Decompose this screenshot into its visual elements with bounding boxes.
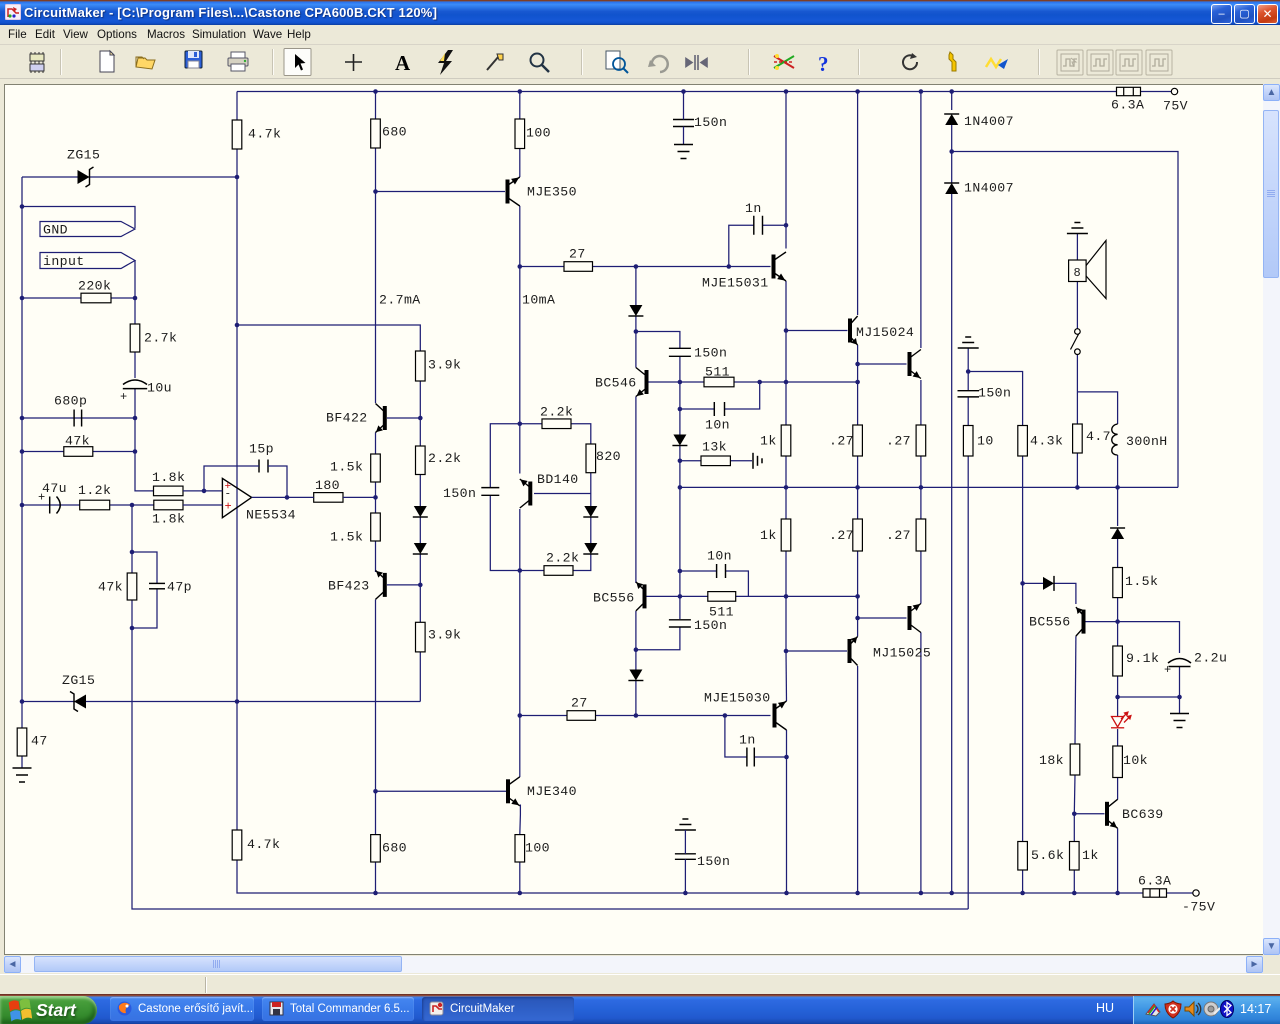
- node 47k right: [133, 449, 138, 454]
- wire BC546 collector node to 150n corner: [636, 332, 680, 349]
- svg-text:27: 27: [569, 247, 586, 262]
- wire diode to 27 lower node: [635, 681, 637, 716]
- svg-text:3.9k: 3.9k: [428, 628, 461, 643]
- svg-text:GND: GND: [43, 223, 68, 238]
- svg-text:1.5k: 1.5k: [1125, 574, 1158, 589]
- wire switch to 4.7 node: [1076, 355, 1078, 425]
- svg-text:1N4007: 1N4007: [964, 181, 1014, 196]
- resistor 2.2k mid: [416, 446, 426, 475]
- wire MJE15031 emitter down: [785, 281, 787, 331]
- wire 2.7k to 10u: [134, 352, 136, 378]
- svg-text:1.5k: 1.5k: [330, 530, 363, 545]
- resistor 27 top: [564, 262, 593, 272]
- capacitor 47p: [149, 583, 165, 588]
- wire BD140 collector down: [519, 509, 521, 571]
- wire 680b to bottom rail: [375, 862, 377, 893]
- wire 1k lower to 511 row: [785, 551, 787, 596]
- node rail857 bottom: [855, 891, 860, 896]
- svg-text:150n: 150n: [694, 346, 727, 361]
- node 27 left: [518, 264, 523, 269]
- node mje340 base: [373, 789, 378, 794]
- svg-text:MJ15025: MJ15025: [873, 646, 931, 661]
- wire rail-375 680 to base row: [375, 148, 377, 192]
- wire MJE340 emitter to 100: [519, 805, 522, 835]
- svg-text:47: 47: [31, 734, 48, 749]
- wire +75V top rail: [237, 91, 1117, 93]
- node rail921 top: [919, 89, 924, 94]
- wire zobel row: [968, 372, 1022, 426]
- node 47p bottom: [130, 626, 135, 631]
- diode bias 590 b: [583, 543, 598, 554]
- resistor 1.5k lower: [371, 513, 381, 541]
- wire MJ15024 emitter down: [857, 345, 859, 382]
- svg-text:1.2k: 1.2k: [78, 483, 111, 498]
- svg-text:1.5k: 1.5k: [330, 460, 363, 475]
- svg-text:150n: 150n: [978, 386, 1011, 401]
- wire 511 lower row left: [680, 595, 708, 597]
- wire rail-237 to bottom rail: [237, 860, 1143, 893]
- node 180 out: [373, 495, 378, 500]
- resistor 10k: [1113, 746, 1123, 778]
- svg-text:+: +: [1164, 663, 1171, 677]
- resistor 4.7k bottom: [232, 830, 242, 860]
- wire 1N4007 to bottom: [951, 194, 953, 893]
- wire MJ15024b base row: [858, 363, 907, 365]
- wire rail-520 top: [519, 92, 521, 120]
- wire rail-520 BD140: [519, 424, 521, 474]
- svg-text:MJ15024: MJ15024: [856, 325, 914, 340]
- wire 679 below output: [679, 487, 681, 596]
- svg-text:10mA: 10mA: [522, 293, 555, 308]
- node 4.3k diode: [1020, 581, 1025, 586]
- svg-text:15p: 15p: [249, 442, 274, 457]
- resistor 9.1k: [1113, 646, 1123, 676]
- resistor 13k: [701, 456, 730, 466]
- wire 420 to 3.9k lower: [419, 585, 421, 622]
- wire rail-520 to MJE340: [519, 716, 521, 778]
- svg-text:2.2k: 2.2k: [546, 551, 579, 566]
- wire rail-951 top: [951, 92, 953, 111]
- resistor 1.5k right: [1113, 568, 1123, 598]
- wire 679 to output rail: [679, 461, 681, 488]
- node 2.2k lower row: [518, 568, 523, 573]
- wire 2.2u to 697 row: [1179, 666, 1181, 713]
- wire 590 between diodes: [590, 518, 592, 544]
- svg-text:5.6k: 5.6k: [1031, 848, 1064, 863]
- resistor 1.2k: [80, 500, 110, 510]
- wire BC556L collector down: [635, 611, 637, 650]
- svg-text:150n: 150n: [697, 854, 730, 869]
- wire 13k to ground: [730, 460, 752, 462]
- wire MJ15024b emitter down: [920, 380, 922, 425]
- wire MJE15030 collector down: [786, 730, 788, 893]
- svg-text:680: 680: [382, 125, 407, 140]
- svg-text:150n: 150n: [694, 618, 727, 633]
- wire MJE350 emitter down: [519, 206, 521, 267]
- svg-text:2.7mA: 2.7mA: [379, 293, 421, 308]
- svg-text:2.2u: 2.2u: [1194, 651, 1227, 666]
- wire 180 to 375 node: [343, 496, 376, 498]
- wire MJE350 base row: [376, 191, 506, 193]
- wire MJ15025 collector down: [857, 666, 859, 893]
- zener ZG15 top: [78, 167, 94, 187]
- wire 15p feedback left: [204, 466, 259, 491]
- capacitor 150n rail top: [673, 120, 694, 127]
- transistor BF422: [376, 404, 385, 433]
- node bc546 collector: [634, 329, 639, 334]
- wire rail-520 to 2.2k row: [519, 267, 521, 424]
- node 1n 786 lower: [784, 755, 789, 760]
- node 857 511 lower: [855, 594, 860, 599]
- wire left rail 47 to ground: [21, 756, 23, 768]
- svg-text:2.2k: 2.2k: [428, 451, 461, 466]
- wire 10n lower row: [680, 570, 717, 572]
- wire 4.3k to 5.6k: [1022, 583, 1024, 841]
- diode 679 limiter: [672, 435, 687, 446]
- wire rail-375 top: [375, 92, 377, 120]
- wire 1n lower right: [754, 756, 786, 758]
- inductor 300nH: [1112, 424, 1118, 455]
- wire 47k row: [22, 451, 135, 453]
- wire op-amp out: [252, 496, 314, 498]
- wire 511 to emitter rail: [734, 381, 858, 383]
- node bc556r base: [1115, 619, 1120, 624]
- wire BC639 base row: [1074, 813, 1104, 815]
- svg-text:47u: 47u: [42, 481, 67, 496]
- resistor .27 bottom b: [916, 519, 926, 551]
- node 220k right: [133, 296, 138, 301]
- resistor 220k: [81, 293, 111, 303]
- node rail786 top: [784, 89, 789, 94]
- resistor 10 zobel: [963, 426, 973, 457]
- wire rail-857 top: [857, 92, 859, 316]
- node 1n top tap: [727, 264, 732, 269]
- node vas diode top: [634, 264, 639, 269]
- wire rail-375 680b: [375, 791, 377, 834]
- wire rail-786 to MJ15025 base row: [785, 596, 787, 651]
- transistor MJE340: [508, 777, 520, 806]
- resistor 1.8k upper: [154, 486, 184, 496]
- wire LED to 10k: [1117, 729, 1119, 746]
- node 857 output: [855, 485, 860, 490]
- node rail520 top: [518, 89, 523, 94]
- node left-rail gndflag: [20, 204, 25, 209]
- node 150n bottom rail: [683, 891, 688, 896]
- wire 2.2k lower row: [520, 570, 544, 572]
- node zobel tap: [966, 369, 971, 374]
- wire 100b to bottom rail: [519, 862, 521, 893]
- capacitor 150n miller: [481, 488, 499, 496]
- node 1n 786: [784, 223, 789, 228]
- wire left rail: [21, 177, 23, 728]
- svg-text:47k: 47k: [65, 434, 90, 449]
- wire rail-786 top: [785, 92, 787, 249]
- node rail921 bottom: [919, 891, 924, 896]
- node 2.2k row: [518, 421, 523, 426]
- wire 9.1k to 697 row: [1117, 676, 1119, 697]
- svg-text:220k: 220k: [78, 279, 111, 294]
- wire 857 .27 lower to 511: [857, 551, 859, 596]
- transistor BC546: [636, 368, 647, 397]
- svg-text:6.3A: 6.3A: [1138, 874, 1171, 889]
- wire 1.5k to base row: [1117, 598, 1119, 622]
- wire BC546 collector stub: [635, 332, 637, 368]
- svg-text:BC546: BC546: [595, 376, 637, 391]
- svg-text:ZG15: ZG15: [67, 148, 100, 163]
- wire output rail: [680, 486, 1178, 488]
- node left-rail 680p: [20, 416, 25, 421]
- svg-text:-75V: -75V: [1182, 900, 1215, 915]
- svg-text:MJE15031: MJE15031: [702, 276, 769, 291]
- svg-text:9.1k: 9.1k: [1126, 651, 1159, 666]
- ground 150n bottom: [675, 819, 696, 830]
- wire 15p feedback right: [268, 466, 287, 497]
- node zener 237: [235, 699, 240, 704]
- svg-text:MJE340: MJE340: [527, 784, 577, 799]
- capacitor 680p: [74, 410, 82, 427]
- fuse F2 6.3A bottom: [1143, 889, 1167, 897]
- node 786 511 lower: [784, 594, 789, 599]
- wire rail-375 to BF422: [375, 192, 377, 404]
- resistor 511 bottom: [708, 592, 736, 602]
- node 27 lower mid: [634, 713, 639, 718]
- svg-text:150n: 150n: [694, 115, 727, 130]
- capacitor 1n bottom: [747, 748, 754, 767]
- wire 27 node to diode: [635, 267, 637, 306]
- wire 511 lower row right: [736, 595, 858, 597]
- wire between 1N4007: [951, 125, 953, 152]
- transistor BD140: [520, 479, 531, 508]
- node left-rail 47k: [20, 449, 25, 454]
- wire inductor branch: [1077, 392, 1117, 424]
- svg-text:.27: .27: [829, 434, 854, 449]
- svg-text:511: 511: [705, 365, 730, 380]
- wire 420 diode string: [419, 475, 421, 507]
- svg-text:75V: 75V: [1163, 99, 1188, 114]
- svg-text:.27: .27: [886, 528, 911, 543]
- wire MJ15025 base row: [786, 650, 847, 652]
- svg-text:13k: 13k: [702, 440, 727, 455]
- svg-text:A: A: [395, 51, 411, 75]
- resistor 1k right: [1070, 842, 1080, 871]
- wire 150n to 511 row: [679, 357, 681, 383]
- node rail375 bottom: [373, 891, 378, 896]
- resistor 2.2k vas bottom: [544, 566, 573, 576]
- svg-text:MJE350: MJE350: [527, 185, 577, 200]
- node rail786 bottom: [784, 891, 789, 896]
- resistor 1.8k lower: [154, 500, 183, 510]
- node 27 lower left: [518, 713, 523, 718]
- ground speaker: [1067, 223, 1088, 234]
- wire speaker gnd to box: [1076, 234, 1078, 260]
- wire 649 row: [636, 627, 680, 650]
- resistor 47k input: [64, 447, 93, 457]
- node inductor output: [1115, 485, 1120, 490]
- resistor .27 top b: [916, 425, 926, 456]
- resistor 3.9k lower: [416, 622, 426, 652]
- wire inductor to output: [1117, 455, 1119, 487]
- wire 2.2k top row: [520, 423, 542, 425]
- wire 420 2.2k: [419, 418, 421, 446]
- svg-text:BC639: BC639: [1122, 807, 1164, 822]
- svg-text:BC556: BC556: [1029, 615, 1071, 630]
- wire 590 diodes to 2.2k lower: [573, 555, 591, 571]
- wire 150n top stub: [683, 92, 685, 120]
- svg-text:BF423: BF423: [328, 579, 370, 594]
- wire speaker to switch: [1076, 282, 1078, 329]
- resistor 680 top: [371, 119, 381, 148]
- svg-text:680: 680: [382, 841, 407, 856]
- led indicator: [1111, 712, 1131, 728]
- wire 921 .27 to output: [920, 456, 922, 487]
- resistor 18k: [1070, 744, 1080, 775]
- terminal 75V: [1171, 88, 1177, 94]
- resistor .27 top a: [853, 425, 863, 456]
- wire input row 47u 1.2k: [22, 504, 154, 506]
- transistor BC556 left: [636, 582, 645, 611]
- diode bias 420 a: [413, 506, 428, 517]
- diode bias 590 a: [583, 506, 598, 517]
- svg-text:100: 100: [526, 126, 551, 141]
- wire BF422 base stub: [387, 417, 420, 419]
- wire 150n branch top: [490, 424, 520, 487]
- svg-text:300nH: 300nH: [1126, 434, 1168, 449]
- node 786 output: [784, 485, 789, 490]
- wire 13k row: [680, 460, 701, 462]
- svg-text:10: 10: [977, 434, 994, 449]
- resistor 2.2k vas top: [542, 419, 571, 429]
- wire 47p branch top: [132, 552, 157, 583]
- node rail951 bottom: [949, 891, 954, 896]
- wire rail-786 1k lower: [785, 487, 787, 519]
- resistor 180: [314, 493, 343, 503]
- wire BC546 emitter down to BC556: [635, 397, 637, 584]
- wire bootstrap row: [952, 152, 1178, 488]
- wire 697 row: [1118, 696, 1180, 698]
- node rail520 bottom: [518, 891, 523, 896]
- wire 1n lower branch: [725, 716, 747, 758]
- wire 1.5k to BF423: [375, 541, 377, 572]
- svg-text:1k: 1k: [760, 528, 777, 543]
- wire 1N4007 mid segment: [951, 152, 953, 184]
- svg-text:input: input: [43, 254, 85, 269]
- svg-text:820: 820: [596, 449, 621, 464]
- transistor BF423: [376, 570, 385, 599]
- svg-text:BF422: BF422: [326, 411, 368, 426]
- wire 5.6k to bottom rail: [1022, 870, 1024, 893]
- wire BF422 emitter to 1.5k: [375, 433, 377, 455]
- svg-text:10k: 10k: [1123, 753, 1148, 768]
- svg-text:?: ?: [818, 52, 829, 76]
- wire output to diode1117: [1117, 487, 1119, 526]
- svg-text:.27: .27: [829, 528, 854, 543]
- wire gnd-flag branch: [22, 207, 135, 229]
- svg-text:1.8k: 1.8k: [152, 512, 185, 527]
- node mj15025 base: [784, 649, 789, 654]
- svg-text:4.7: 4.7: [1086, 429, 1111, 444]
- svg-text:180: 180: [315, 478, 340, 493]
- transistor BC556 right: [1076, 607, 1084, 636]
- node 679 511: [678, 380, 683, 385]
- ground 13k: [753, 453, 762, 469]
- svg-text:6.3A: 6.3A: [1111, 98, 1144, 113]
- resistor 5.6k: [1018, 842, 1028, 871]
- node 857 b2base lower: [855, 616, 860, 621]
- wire 237-to-420 row: [237, 325, 420, 351]
- wire rail-786 1k top: [785, 382, 787, 425]
- net flag input: [40, 253, 135, 269]
- wire 27 row top: [520, 266, 564, 268]
- wire 10u down to 680p row: [135, 389, 154, 491]
- node bf422 base: [418, 416, 423, 421]
- wire diode to BC556R emitter: [1054, 583, 1076, 604]
- node left-rail zener: [20, 699, 25, 704]
- capacitor 1n top: [754, 216, 763, 235]
- svg-text:+: +: [120, 390, 127, 404]
- node 857 b2base: [855, 362, 860, 367]
- wire 150n top to gnd: [683, 127, 685, 145]
- svg-text:100: 100: [525, 841, 550, 856]
- wire 10n lower corner: [726, 571, 749, 596]
- node mj15024 base: [784, 328, 789, 333]
- wire 4.7 to output: [1076, 453, 1078, 487]
- wire 921 .27 lower: [920, 487, 922, 519]
- node bc639 emitter rail: [1115, 891, 1120, 896]
- wire MJ15025b collector down: [920, 633, 922, 894]
- wire LED: [1117, 697, 1119, 716]
- wire 680p row: [22, 417, 135, 419]
- wire bottom rail fuse to terminal: [1167, 892, 1193, 894]
- resistor 4.7k top: [232, 120, 242, 149]
- transistor BC639: [1107, 799, 1118, 828]
- svg-text:680p: 680p: [54, 394, 87, 409]
- svg-text:10n: 10n: [707, 549, 732, 564]
- resistor 1k bottom: [781, 519, 791, 551]
- switch SPST: [1071, 329, 1081, 355]
- transistor MJE15030: [775, 701, 787, 730]
- svg-text:1n: 1n: [739, 733, 756, 748]
- transistor MJ15025 a: [850, 637, 858, 666]
- node 47p top: [130, 550, 135, 555]
- wire MJ15024 base row: [786, 330, 848, 332]
- svg-text:4.3k: 4.3k: [1030, 434, 1063, 449]
- node 237 row325: [235, 323, 240, 328]
- wire 857 .27 to output: [857, 456, 859, 487]
- transistor MJ15024 b: [910, 350, 921, 379]
- transistor MJ15024 a: [850, 316, 858, 345]
- svg-text:1.8k: 1.8k: [152, 470, 185, 485]
- wire 1n top branch: [729, 225, 754, 266]
- ground 2.2u: [1170, 714, 1189, 728]
- capacitor 150n bc556: [669, 620, 691, 627]
- wire rail-786 to 511 row: [785, 331, 787, 383]
- node 2.2u bottom: [1177, 695, 1182, 700]
- svg-text:MJE15030: MJE15030: [704, 691, 771, 706]
- wire 1.2k node down: [131, 505, 133, 573]
- wire 2.2k to 820: [571, 424, 591, 444]
- wire 150n bottom to rail: [684, 859, 686, 893]
- svg-text:10n: 10n: [705, 418, 730, 433]
- wire 857 to MJ15025 emitter: [857, 596, 859, 636]
- wire rail-237 low: [236, 702, 238, 831]
- svg-text:27: 27: [571, 696, 588, 711]
- node 679 10n lower: [678, 569, 683, 574]
- ground 150n top: [674, 145, 693, 159]
- diode protection right: [1043, 576, 1054, 591]
- svg-text:ZG15: ZG15: [62, 673, 95, 688]
- svg-text:2.2k: 2.2k: [540, 405, 573, 420]
- diode output 1117: [1110, 528, 1125, 539]
